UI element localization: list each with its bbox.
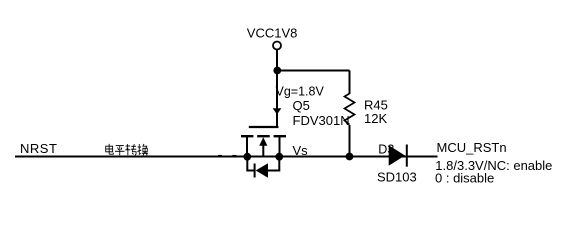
char 转 — [125, 144, 136, 155]
transistor Q5 source stub — [246, 136, 248, 157]
wire VCC stem — [276, 49, 278, 71]
svg-text:SD103: SD103 — [377, 169, 417, 184]
wire body diode loop right — [268, 157, 279, 171]
wire resistor bottom lead — [349, 125, 351, 157]
wire VCC junction to resistor top — [277, 70, 350, 72]
transistor Q5 channel dash drain — [274, 135, 286, 137]
char 电 — [106, 144, 114, 154]
pin tick on wire left of transistor — [218, 155, 222, 156]
char 换 — [137, 144, 148, 155]
junction dot source — [243, 153, 251, 161]
transistor Q5 bulk arrow line — [262, 144, 264, 158]
transistor Q5 channel dash middle — [257, 135, 270, 137]
transistor Q5 bulk arrow head — [259, 137, 267, 146]
label 电平转换 level-shift chinese drawn strokes — [106, 144, 148, 156]
junction dot resistor bottom on main wire — [346, 153, 354, 161]
svg-text:Vs: Vs — [293, 143, 309, 158]
svg-text:VCC1V8: VCC1V8 — [247, 26, 298, 41]
svg-text:Q5: Q5 — [293, 98, 310, 113]
wire body diode loop left — [247, 157, 254, 171]
char 平 — [115, 146, 124, 156]
power symbol VCC1V8 circle — [273, 42, 281, 50]
svg-text:FDV301N: FDV301N — [293, 113, 350, 128]
svg-text:MCU_RSTn: MCU_RSTn — [437, 140, 507, 155]
svg-text:Vg=1.8V: Vg=1.8V — [276, 85, 325, 99]
pin tick on wire near transistor — [232, 155, 236, 156]
junction dot at VCC node — [273, 67, 281, 75]
resistor R45 zigzag — [345, 94, 355, 125]
svg-text:NRST: NRST — [20, 141, 57, 156]
svg-text:12K: 12K — [364, 111, 387, 126]
wire NRST main horizontal net — [15, 156, 438, 158]
diode D3 triangle — [389, 145, 405, 165]
junction dot drain — [275, 153, 283, 161]
wire resistor top lead — [349, 71, 351, 95]
wire gate lead vertical — [276, 71, 278, 128]
annotation arrow Vg pointing down on gate lead — [273, 108, 282, 114]
body diode cathode bar — [254, 164, 256, 178]
svg-text:0 : disable: 0 : disable — [435, 171, 494, 186]
body diode triangle — [256, 163, 268, 177]
transistor Q5 gate plate — [249, 126, 279, 128]
diode D3 cathode bar — [406, 145, 408, 167]
transistor Q5 drain stub — [279, 136, 281, 157]
transistor Q5 channel dash source — [241, 135, 253, 137]
